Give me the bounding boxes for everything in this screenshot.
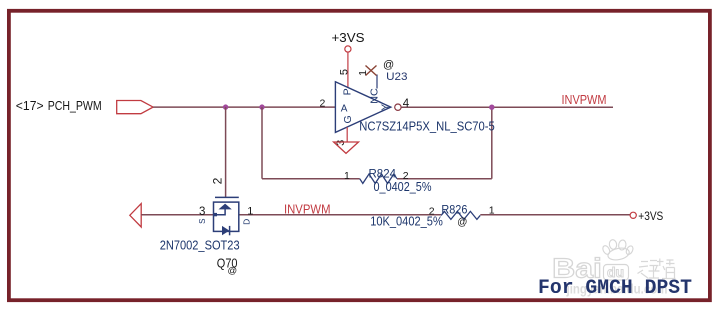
arrow to gate xyxy=(219,204,232,210)
wire gate drop xyxy=(225,107,227,197)
svg-text:For GMCH DPST: For GMCH DPST xyxy=(538,277,692,300)
svg-text:1: 1 xyxy=(357,70,369,76)
svg-text:2: 2 xyxy=(320,98,326,110)
designator @ U23 xyxy=(383,59,408,83)
svg-text:1: 1 xyxy=(344,170,350,182)
body diode xyxy=(222,226,229,235)
inverter U23 triangle xyxy=(335,82,390,133)
wire feedback bottom right xyxy=(397,178,492,180)
input port label PCH_PWM xyxy=(16,98,102,113)
input port connector xyxy=(117,101,153,114)
svg-text:4: 4 xyxy=(403,98,410,110)
svg-text:5: 5 xyxy=(338,69,350,75)
watermark chinese characters xyxy=(638,259,676,279)
body box xyxy=(214,202,239,231)
svg-text:G: G xyxy=(342,115,354,123)
wire VCC pin 5 xyxy=(347,52,349,87)
svg-text:Y: Y xyxy=(380,104,391,111)
node junction on output xyxy=(489,105,494,110)
resistor R824 xyxy=(344,167,432,195)
wire feedback left vertical xyxy=(261,107,263,179)
svg-text:NC7SZ14P5X_NL_SC70-5: NC7SZ14P5X_NL_SC70-5 xyxy=(359,118,495,133)
svg-text:PCH_PWM: PCH_PWM xyxy=(48,98,102,113)
svg-text:S: S xyxy=(198,219,207,224)
wire to +3VS pullup xyxy=(480,214,630,216)
svg-text:+3VS: +3VS xyxy=(638,209,663,223)
svg-text:1: 1 xyxy=(489,205,495,217)
svg-text:@: @ xyxy=(383,59,394,71)
svg-text:<17>: <17> xyxy=(16,98,44,113)
svg-text:1: 1 xyxy=(247,206,253,218)
svg-text:D: D xyxy=(242,219,252,225)
wire drain INVPWM xyxy=(239,214,441,216)
svg-text:0_0402_5%: 0_0402_5% xyxy=(374,180,432,194)
svg-text:INVPWM: INVPWM xyxy=(284,201,331,216)
wire feedback bottom left xyxy=(262,178,360,180)
svg-text:2N7002_SOT23: 2N7002_SOT23 xyxy=(160,238,240,253)
node junction at gate tap xyxy=(223,104,228,109)
svg-text:10K_0402_5%: 10K_0402_5% xyxy=(370,214,443,228)
transistor Q70 xyxy=(214,197,239,235)
node junction at feedback tap xyxy=(259,104,264,109)
svg-text:U23: U23 xyxy=(386,71,407,83)
wire source xyxy=(141,214,213,216)
power +3VS right xyxy=(630,209,663,223)
watermark Baidu logo xyxy=(552,239,634,283)
svg-text:P: P xyxy=(341,88,353,95)
no-connect X xyxy=(366,66,377,76)
svg-text:INVPWM: INVPWM xyxy=(562,92,607,107)
svg-text:3: 3 xyxy=(199,206,205,218)
off-page connector (left arrow) xyxy=(130,204,141,227)
svg-text:+3VS: +3VS xyxy=(332,30,365,45)
svg-text:A: A xyxy=(341,103,348,114)
svg-text:2: 2 xyxy=(210,177,224,184)
svg-text:@: @ xyxy=(228,266,238,277)
svg-text:R826: R826 xyxy=(441,203,467,217)
wire output INVPWM xyxy=(401,106,613,108)
power +3VS top xyxy=(332,30,365,52)
resistor R826 xyxy=(370,203,495,229)
NC pin stub xyxy=(376,75,378,89)
ground xyxy=(334,142,359,153)
gate bar xyxy=(215,196,239,198)
output bubble xyxy=(395,104,401,110)
svg-text:NC: NC xyxy=(368,88,380,104)
wire feedback right vertical xyxy=(491,107,493,179)
wire GND pin 3 xyxy=(346,127,348,142)
svg-text:@: @ xyxy=(457,217,467,228)
svg-text:R824: R824 xyxy=(369,167,397,181)
wire PCH_PWM main xyxy=(153,106,335,108)
